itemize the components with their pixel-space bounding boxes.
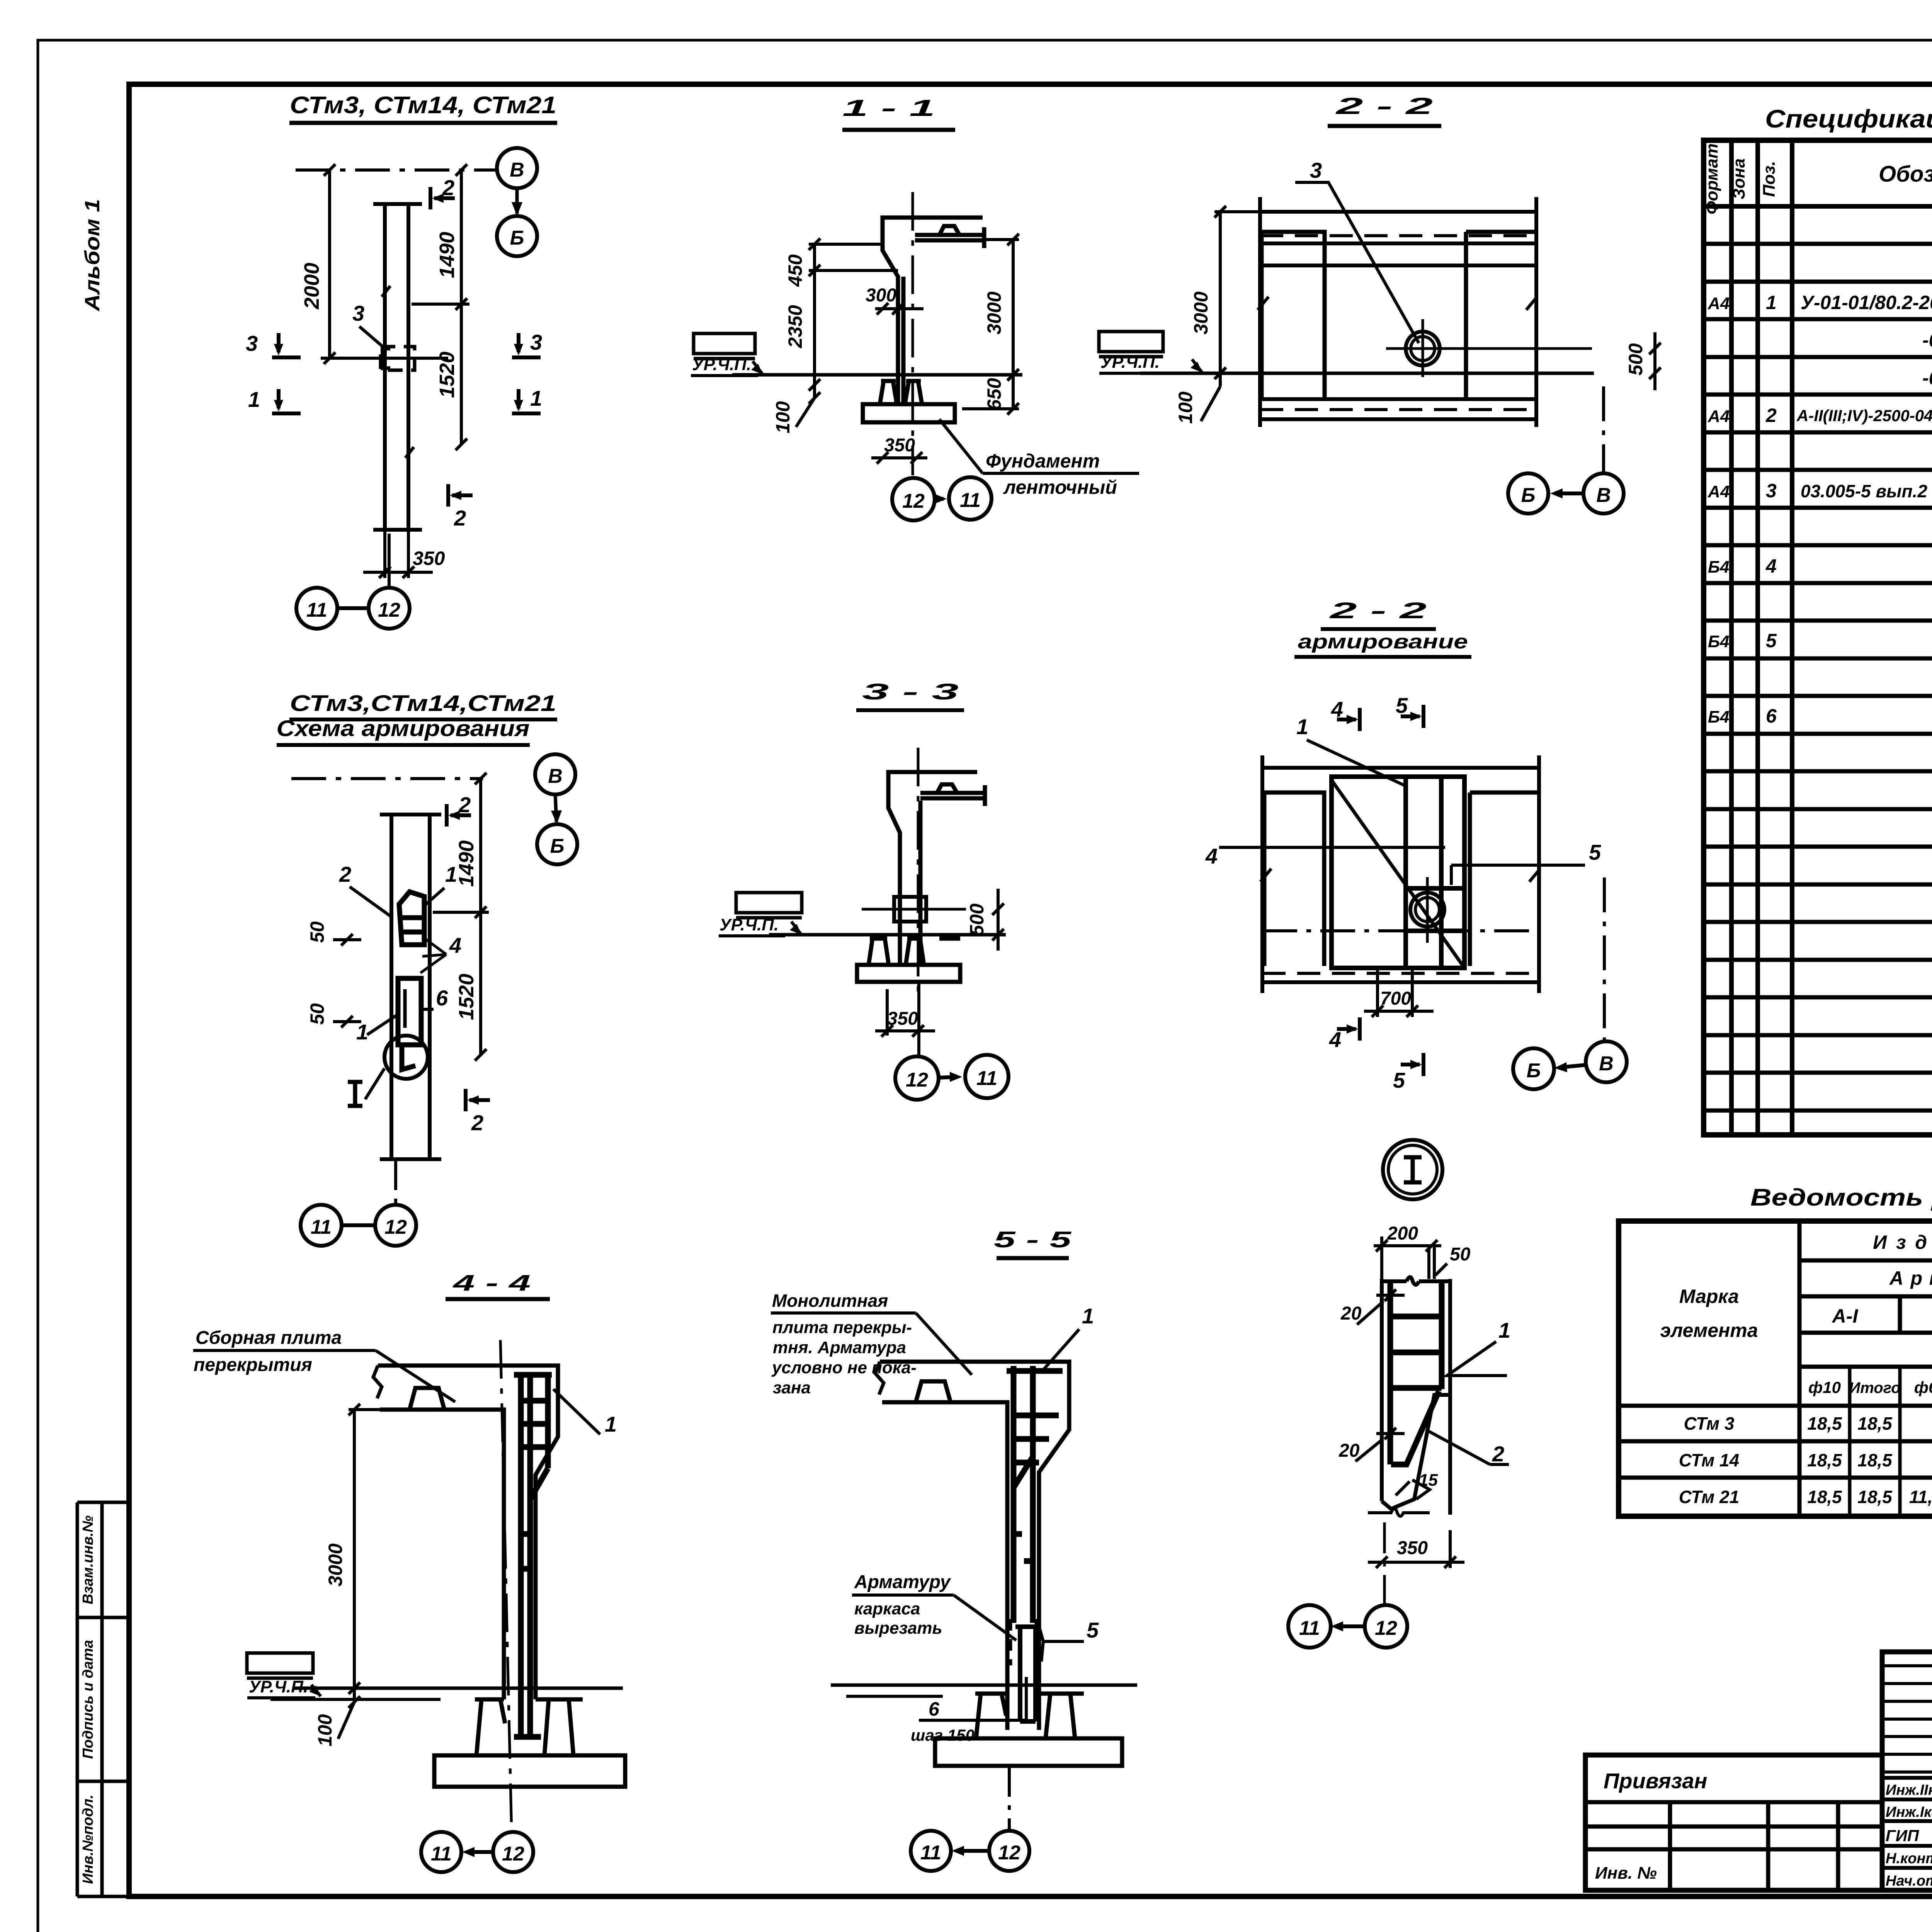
svg-text:У-01-01/80.2-200-02: У-01-01/80.2-200-02: [1801, 292, 1932, 313]
section 5-5 foundation: [935, 1694, 1122, 1766]
svg-text:1 - 1: 1 - 1: [842, 95, 935, 121]
svg-text:вырезать: вырезать: [854, 1619, 942, 1638]
svg-text:3000: 3000: [325, 1543, 346, 1586]
svg-text:12: 12: [998, 1842, 1020, 1864]
svg-text:Арматуру: Арматуру: [854, 1572, 951, 1592]
schema dim 1490 1520: [433, 773, 489, 1061]
schema circle V: [535, 754, 575, 794]
svg-text:4: 4: [1765, 555, 1777, 577]
section 5-5 ground line: [831, 1684, 1137, 1687]
svg-text:СТм 3: СТм 3: [1684, 1413, 1735, 1434]
svg-text:В: В: [1599, 1053, 1614, 1075]
svg-text:2: 2: [442, 175, 454, 200]
svg-text:Монолитная: Монолитная: [772, 1291, 888, 1311]
svg-text:1: 1: [248, 387, 260, 412]
section 4-4 foundation: [434, 1699, 625, 1787]
svg-text:11: 11: [960, 489, 981, 512]
svg-text:350: 350: [884, 435, 915, 456]
svg-text:50: 50: [306, 1003, 328, 1025]
svg-text:Ведомость расхода стали на: Ведомость расхода стали на элемент, кг: [1750, 1184, 1932, 1211]
svg-text:1520: 1520: [455, 974, 478, 1020]
vedomost header texts: [1660, 1231, 1932, 1401]
svg-text:300: 300: [866, 285, 896, 306]
section 2-2a leader 5: [1451, 864, 1585, 867]
svg-text:А-I: А-I: [1832, 1305, 1859, 1327]
svg-text:12: 12: [1375, 1617, 1397, 1639]
section 5-5 dashed cut region: [1010, 1619, 1036, 1665]
section 1-1 dim 3000: [962, 234, 1019, 415]
section 3-3 ground line: [769, 933, 1006, 937]
svg-text:350: 350: [413, 548, 445, 569]
section 5-5 rebar cage: [1007, 1366, 1063, 1721]
svg-text:4 - 4: 4 - 4: [452, 1270, 531, 1296]
svg-text:Альбом 1: Альбом 1: [81, 199, 104, 312]
section 3-3 foundation: [857, 939, 960, 982]
svg-text:Инж.IIкат: Инж.IIкат: [1886, 1782, 1932, 1798]
section 4-4 slab and wall outline: [373, 1366, 558, 1699]
section 1-1 foundation: [863, 381, 955, 422]
plan wall lines: [373, 204, 422, 530]
section 3-3 dim 500: [992, 889, 1004, 951]
svg-text:50: 50: [306, 921, 328, 943]
section 1-1 circles 12 11: [892, 477, 992, 520]
svg-text:армирование: армирование: [1298, 631, 1468, 653]
svg-text:18,5: 18,5: [1807, 1487, 1842, 1507]
svg-text:500: 500: [1625, 343, 1646, 376]
svg-text:12: 12: [902, 490, 925, 512]
svg-text:1490: 1490: [435, 232, 459, 278]
svg-text:1: 1: [1082, 1304, 1094, 1328]
svg-text:5: 5: [1589, 840, 1601, 864]
svg-text:Б4: Б4: [1708, 558, 1730, 577]
svg-text:Б4: Б4: [1708, 632, 1730, 651]
plan node dashed box: [381, 347, 415, 370]
section 1-1 centerline: [912, 192, 914, 475]
section 2-2a central embed block: [1332, 777, 1464, 968]
svg-text:3000: 3000: [1190, 291, 1212, 334]
svg-text:2 - 2: 2 - 2: [1335, 93, 1433, 119]
svg-text:11: 11: [976, 1067, 997, 1090]
svg-text:Схема армирования: Схема армирования: [277, 716, 530, 741]
plan section mark 2 bottom: [448, 484, 473, 507]
svg-text:4: 4: [449, 933, 461, 957]
section 2-2a leader 4: [1219, 846, 1445, 849]
schema detail circle: [384, 1036, 428, 1079]
svg-text:5 - 5: 5 - 5: [994, 1227, 1071, 1252]
svg-text:18,5: 18,5: [1857, 1487, 1893, 1507]
svg-text:-09: -09: [1922, 367, 1932, 389]
svg-text:3 - 3: 3 - 3: [862, 679, 959, 704]
svg-text:18,5: 18,5: [1857, 1413, 1893, 1434]
spec table row contents: [1708, 216, 1932, 840]
svg-text:5: 5: [1087, 1618, 1099, 1642]
svg-text:Инв.№подл.: Инв.№подл.: [80, 1794, 96, 1884]
svg-text:2: 2: [454, 506, 466, 530]
svg-text:ленточный: ленточный: [1003, 476, 1117, 498]
svg-text:плита перекры-: плита перекры-: [772, 1318, 912, 1337]
svg-text:Изделия арматурные: Изделия арматурные: [1873, 1231, 1932, 1253]
svg-text:5: 5: [1396, 693, 1408, 718]
svg-text:Обозначение: Обозначение: [1879, 162, 1932, 187]
svg-text:6: 6: [1766, 705, 1777, 727]
svg-text:элемента: элемента: [1660, 1320, 1758, 1341]
grid circle B: [497, 216, 537, 256]
svg-text:100: 100: [1175, 391, 1196, 424]
section 3-3 centerline: [917, 748, 920, 997]
section 1-1 floor slab hatch block: [694, 333, 755, 359]
section 2-2 dashed lines: [1260, 234, 1536, 237]
svg-text:ГИП: ГИП: [1886, 1827, 1919, 1845]
svg-text:100: 100: [314, 1714, 336, 1747]
svg-text:Б: Б: [550, 835, 565, 857]
svg-text:450: 450: [784, 254, 806, 287]
schema section mark 2 top: [447, 804, 471, 827]
svg-text:650: 650: [983, 378, 1005, 410]
svg-text:В: В: [1596, 484, 1611, 507]
svg-text:Взам.инв.№: Взам.инв.№: [80, 1515, 96, 1604]
plan circles 11 12: [296, 588, 410, 629]
schema upper rebar cage: [399, 892, 424, 945]
svg-text:Марка: Марка: [1679, 1286, 1739, 1307]
svg-text:Н.контр.: Н.контр.: [1886, 1850, 1932, 1867]
svg-text:А4: А4: [1708, 482, 1730, 501]
title block privyazan box: [1585, 1755, 1882, 1890]
section 5-5 slab and wall outline: [875, 1362, 1069, 1730]
svg-text:3: 3: [1766, 480, 1777, 502]
svg-text:12: 12: [906, 1069, 928, 1091]
section 5-5 circles 11 12: [1008, 1766, 1011, 1831]
svg-text:11: 11: [311, 1216, 332, 1238]
title block signature grid: [1882, 1652, 1932, 1890]
svg-text:Поз.: Поз.: [1760, 161, 1779, 197]
section 1-1 ground line: [732, 373, 1022, 377]
svg-text:1520: 1520: [435, 352, 459, 398]
section 1-1 dim 100 left: [796, 385, 820, 427]
section 4-4 ground line: [293, 1687, 623, 1690]
detail circles 11 12: [1288, 1605, 1407, 1648]
svg-text:11,2: 11,2: [1909, 1487, 1932, 1507]
svg-text:Фундамент: Фундамент: [986, 450, 1100, 472]
section 2-2 hatch block: [1099, 332, 1163, 357]
schema bottom leader: [394, 1159, 397, 1205]
svg-text:11: 11: [1299, 1617, 1320, 1639]
svg-text:20: 20: [1340, 1303, 1362, 1324]
section 1-1 wall and slab outline: [883, 218, 984, 383]
specification table grid: [1704, 140, 1932, 1135]
svg-text:2: 2: [1765, 405, 1777, 426]
svg-text:В: В: [510, 159, 524, 181]
svg-text:500: 500: [966, 903, 988, 936]
svg-text:6: 6: [436, 986, 448, 1010]
section 4-4 rebar cage: [514, 1375, 552, 1737]
specification table row lines: [1704, 244, 1932, 1111]
section 2-2 embed circle: [1406, 332, 1440, 366]
svg-text:50: 50: [1450, 1244, 1471, 1265]
schema circle B: [537, 824, 577, 864]
section 2-2 circles B V: [1602, 386, 1605, 472]
svg-text:Зона: Зона: [1730, 158, 1748, 199]
signature rows texts: [1886, 1780, 1932, 1890]
grid circle V: [497, 148, 537, 188]
spec header texts: [1702, 143, 1932, 214]
svg-text:СТм3,СТм14,СТм21: СТм3,СТм14,СТм21: [290, 691, 556, 716]
svg-text:4: 4: [1329, 1027, 1341, 1052]
svg-text:3000: 3000: [983, 291, 1005, 334]
svg-text:Б: Б: [510, 227, 524, 249]
section 2-2a circles B V: [1603, 878, 1606, 1040]
section 3-3 embed block: [894, 897, 926, 922]
svg-text:А4: А4: [1708, 407, 1730, 426]
svg-text:350: 350: [1397, 1538, 1428, 1558]
svg-text:Сборная плита: Сборная плита: [196, 1328, 342, 1348]
svg-text:1: 1: [1766, 292, 1777, 313]
svg-text:Инв. №: Инв. №: [1595, 1864, 1657, 1883]
section 2-2 left pilaster: [1258, 232, 1325, 399]
svg-text:Привязан: Привязан: [1604, 1769, 1707, 1793]
schema axis: [291, 777, 483, 780]
detail rebar: [1390, 1283, 1442, 1464]
section 1-1 dim 450: [809, 238, 898, 391]
svg-text:700: 700: [1380, 988, 1411, 1009]
svg-text:18,5: 18,5: [1807, 1450, 1842, 1470]
section 2-2 ground line: [1140, 372, 1594, 375]
section 3-3 wall slab outline: [888, 772, 985, 939]
detail I circle: [1383, 1140, 1442, 1199]
svg-text:шаг 150: шаг 150: [911, 1726, 975, 1744]
svg-text:11: 11: [431, 1843, 452, 1865]
section 3-3 bottom leader: [917, 982, 920, 1056]
section 4-4 circles 11 12: [421, 1832, 533, 1872]
svg-text:-08: -08: [1922, 329, 1932, 351]
svg-text:УР.Ч.П.: УР.Ч.П.: [249, 1677, 308, 1696]
svg-text:1: 1: [356, 1020, 368, 1044]
svg-text:Формат: Формат: [1702, 143, 1721, 214]
stamp column boxes bottom-left: [77, 1502, 130, 1896]
schema section mark 2 bottom: [466, 1089, 490, 1111]
section 3-3 hatch block: [736, 893, 802, 918]
svg-text:ф10: ф10: [1808, 1378, 1841, 1396]
svg-text:Б: Б: [1527, 1060, 1541, 1082]
section 2-2a band: [1262, 755, 1539, 993]
svg-text:12: 12: [502, 1843, 524, 1865]
svg-text:12: 12: [378, 599, 400, 621]
section 2-2a embed circle: [1410, 893, 1444, 927]
schema lower rebar cage: [398, 978, 421, 1045]
svg-text:Спецификация к стенам моно: Спецификация к стенам монолитным СТм3, С…: [1765, 104, 1932, 133]
svg-text:СТм 14: СТм 14: [1679, 1450, 1739, 1470]
plan bottom leader to circles: [388, 534, 391, 588]
svg-text:Б4: Б4: [1708, 707, 1730, 726]
svg-text:СТм 21: СТм 21: [1679, 1487, 1739, 1507]
svg-text:1: 1: [445, 862, 457, 886]
schema arrow V to B: [555, 794, 556, 822]
svg-text:2: 2: [471, 1111, 483, 1135]
svg-text:2: 2: [339, 862, 351, 886]
section 2-2a pilasters: [1260, 793, 1540, 966]
svg-text:тня. Арматура: тня. Арматура: [773, 1338, 906, 1357]
svg-text:зана: зана: [773, 1378, 811, 1397]
svg-text:Б: Б: [1521, 484, 1536, 507]
plan axis line: [296, 168, 496, 172]
svg-text:03.005-5 вып.2 ал.3 КПК-3: 03.005-5 вып.2 ал.3 КПК-3: [1801, 481, 1932, 501]
svg-text:Итого: Итого: [1849, 1379, 1900, 1396]
svg-text:Инж.Iкат.: Инж.Iкат.: [1886, 1804, 1932, 1820]
section 2-2 right pilaster: [1466, 232, 1537, 399]
svg-text:В: В: [548, 765, 563, 787]
svg-text:А-II(III;IV)-2500-0459.90-КЖ.И: А-II(III;IV)-2500-0459.90-КЖ.И. 045: [1796, 406, 1932, 425]
svg-text:1: 1: [1498, 1318, 1510, 1342]
svg-text:5: 5: [1766, 630, 1777, 651]
svg-text:12: 12: [384, 1216, 407, 1238]
svg-text:1: 1: [1296, 714, 1308, 739]
section 4-4 hatch block: [247, 1653, 313, 1678]
svg-text:1: 1: [605, 1412, 617, 1436]
svg-text:1490: 1490: [455, 840, 478, 887]
detail element outline: [1382, 1277, 1450, 1515]
svg-text:5: 5: [1393, 1068, 1405, 1092]
plan dim 1490 1520: [412, 164, 469, 450]
svg-text:2350: 2350: [784, 305, 806, 348]
svg-text:20: 20: [1338, 1440, 1360, 1461]
section 2-2a dashed axis: [1262, 929, 1539, 932]
schema wall lines: [380, 815, 441, 1159]
section 2-2 dim 3000: [1214, 206, 1260, 386]
svg-text:1: 1: [530, 386, 542, 410]
vedomost table grid: [1619, 1221, 1932, 1516]
section 3-3 circles 12 11: [895, 1055, 1009, 1100]
section 2-2 wall band: [1260, 197, 1536, 427]
svg-text:11: 11: [306, 599, 327, 621]
section 2-2 dim 500 right: [1649, 332, 1661, 390]
svg-text:Подпись и дата: Подпись и дата: [80, 1640, 96, 1759]
svg-text:2 - 2: 2 - 2: [1329, 598, 1427, 623]
svg-text:2000: 2000: [300, 263, 323, 310]
vedomost data rows: [1679, 1412, 1932, 1507]
svg-text:18,5: 18,5: [1857, 1450, 1893, 1470]
detail break line: [1368, 1509, 1430, 1516]
svg-text:3: 3: [530, 330, 542, 354]
svg-text:каркаса: каркаса: [854, 1599, 920, 1618]
svg-text:А4: А4: [1708, 294, 1730, 313]
svg-text:2: 2: [458, 793, 471, 817]
section 4-4 dim 3000: [349, 1404, 380, 1694]
svg-text:11: 11: [920, 1842, 941, 1864]
svg-text:2: 2: [1492, 1442, 1504, 1466]
arrow V to B: [515, 188, 519, 214]
svg-text:100: 100: [772, 401, 794, 434]
section 4-4 centerline: [500, 1340, 512, 1832]
svg-text:ф6: ф6: [1914, 1378, 1932, 1396]
plan section mark 2 top: [430, 187, 455, 209]
svg-text:СТм3, СТм14, СТм21: СТм3, СТм14, СТм21: [290, 92, 556, 119]
svg-text:18,5: 18,5: [1807, 1413, 1842, 1434]
svg-text:перекрытия: перекрытия: [194, 1355, 312, 1375]
svg-text:4: 4: [1205, 844, 1218, 868]
svg-text:6: 6: [929, 1698, 940, 1720]
svg-text:3: 3: [1310, 158, 1322, 182]
plan dim 2000: [324, 164, 335, 364]
svg-text:3: 3: [246, 331, 258, 355]
schema circles 11 12: [301, 1205, 416, 1246]
svg-text:Нач.отэл: Нач.отэл: [1886, 1873, 1932, 1889]
svg-text:3: 3: [352, 301, 364, 325]
svg-text:200: 200: [1387, 1223, 1418, 1244]
schema detail mark I: [348, 1068, 384, 1106]
detail centerline to circles: [1383, 1522, 1386, 1604]
